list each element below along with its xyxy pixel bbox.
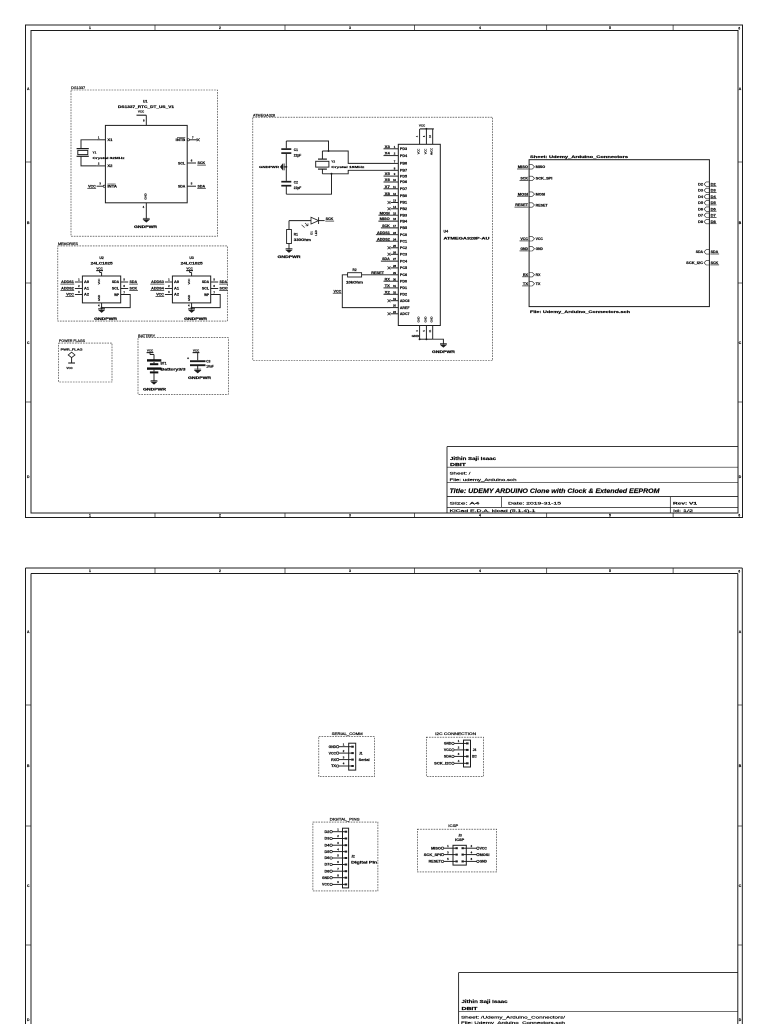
U1 pin 1 X1 xyxy=(97,139,106,141)
svg-text:31: 31 xyxy=(393,284,397,288)
svg-text:GND: GND xyxy=(423,316,427,322)
section box ICSP xyxy=(417,829,496,872)
svg-text:U1: U1 xyxy=(143,99,148,103)
J2 pin 2 D3 xyxy=(330,837,332,839)
svg-text:D5: D5 xyxy=(698,201,703,205)
J3 pin 5 RESET xyxy=(441,860,443,862)
U1 pin 5 SDA xyxy=(187,185,196,187)
sheet symbol Udemy_Arduino_Connectors xyxy=(529,160,709,307)
svg-text:A2: A2 xyxy=(174,293,179,297)
svg-text:PC2: PC2 xyxy=(400,246,407,250)
svg-text:WP: WP xyxy=(204,293,210,297)
svg-text:A0: A0 xyxy=(84,280,89,284)
svg-text:X1: X1 xyxy=(107,138,112,142)
svg-text:GND: GND xyxy=(480,860,488,864)
svg-text:PB1: PB1 xyxy=(400,201,407,205)
svg-text:26: 26 xyxy=(393,250,397,254)
sheet pin GND (left) xyxy=(529,247,534,251)
page border inner xyxy=(31,31,738,514)
title block frame xyxy=(447,446,738,448)
svg-text:PB2: PB2 xyxy=(400,207,407,211)
section box MEMORIES xyxy=(58,246,228,321)
wire crystal top to C1 and PB6 xyxy=(286,141,328,151)
svg-text:Jithin Saji Isaac: Jithin Saji Isaac xyxy=(450,456,497,461)
section box ATMEGA328 xyxy=(253,117,493,360)
wire crystal bottom to C2 and PB7 xyxy=(286,174,331,194)
svg-text:D3: D3 xyxy=(325,837,330,841)
U2 address pins A0 A1 A2 xyxy=(75,281,83,283)
svg-text:Digital Pin: Digital Pin xyxy=(351,861,377,865)
svg-text:J1: J1 xyxy=(359,751,363,755)
svg-text:U3: U3 xyxy=(189,256,193,260)
svg-text:ATMEGA328: ATMEGA328 xyxy=(253,113,275,117)
svg-text:22: 22 xyxy=(393,310,397,314)
J1 pin 3 RX xyxy=(336,758,338,760)
svg-text:VCC: VCC xyxy=(186,266,193,270)
svg-text:A0: A0 xyxy=(174,280,179,284)
svg-text:D2: D2 xyxy=(711,182,716,186)
svg-text:J3: J3 xyxy=(458,833,462,837)
svg-text:D4: D4 xyxy=(325,843,330,847)
svg-text:3: 3 xyxy=(349,569,351,573)
svg-text:SDA: SDA xyxy=(711,250,719,254)
J2 pin 7 D8 xyxy=(330,870,332,872)
svg-text:SCK: SCK xyxy=(326,217,334,221)
J2 pin 3 D4 xyxy=(330,844,332,846)
section box DS1337 xyxy=(71,90,218,236)
svg-text:PC1: PC1 xyxy=(400,239,407,243)
wire C1 C2 vertical xyxy=(285,141,287,148)
capacitor C2 22pF xyxy=(281,181,291,183)
svg-text:SDA: SDA xyxy=(220,280,228,284)
svg-text:SDA: SDA xyxy=(198,184,206,188)
svg-text:GND: GND xyxy=(322,876,330,880)
ground GNDPWR below R1 xyxy=(288,244,290,250)
svg-text:D7: D7 xyxy=(325,863,330,867)
sheet pin SDA (right) xyxy=(704,250,709,254)
J3 pin 3 SCK_SPI xyxy=(441,853,443,855)
svg-text:PB3: PB3 xyxy=(400,213,407,217)
svg-text:PB7: PB7 xyxy=(400,169,407,173)
power VCC under flag xyxy=(68,362,75,364)
U1 pin 2 X2 xyxy=(97,165,106,167)
svg-text:Sheet: /: Sheet: / xyxy=(450,471,472,476)
svg-text:15: 15 xyxy=(393,211,397,215)
svg-text:SERIAL_COMM: SERIAL_COMM xyxy=(332,732,363,736)
svg-text:PC6: PC6 xyxy=(400,273,407,277)
svg-text:RX: RX xyxy=(523,273,529,277)
svg-text:VCC: VCC xyxy=(193,348,200,352)
svg-text:RESET: RESET xyxy=(371,271,384,275)
svg-text:PC4: PC4 xyxy=(400,259,407,263)
sheet pin D5 (right) xyxy=(704,201,709,205)
frame row ticks and letters xyxy=(26,161,32,163)
svg-text:VCC: VCC xyxy=(417,149,421,155)
J4 pin 3 SDA xyxy=(452,755,454,757)
svg-text:VCC: VCC xyxy=(66,366,73,370)
svg-text:PD0: PD0 xyxy=(400,279,407,283)
svg-text:MOSI: MOSI xyxy=(536,192,546,196)
svg-text:Sheet: Udemy_Arduino_Connector: Sheet: Udemy_Arduino_Connectors xyxy=(530,155,628,159)
svg-text:Rev: V1: Rev: V1 xyxy=(673,501,698,506)
svg-text:SDA: SDA xyxy=(130,280,138,284)
svg-text:GNDPWR: GNDPWR xyxy=(259,165,280,169)
svg-text:R1: R1 xyxy=(294,232,298,236)
sheet pin TX (left) xyxy=(529,282,534,286)
J1 pin 2 VCC xyxy=(336,752,338,754)
svg-text:MOSI: MOSI xyxy=(518,192,528,196)
svg-text:23: 23 xyxy=(393,231,397,235)
svg-text:SDA: SDA xyxy=(202,280,210,284)
J1 pin 1 GND xyxy=(336,746,338,748)
wire to GNDPWR below U4 xyxy=(433,339,444,344)
svg-text:PD2: PD2 xyxy=(400,293,407,297)
svg-text:PC0: PC0 xyxy=(400,233,407,237)
svg-text:GND: GND xyxy=(97,295,101,301)
svg-text:X8: X8 xyxy=(385,192,390,196)
svg-text:A1: A1 xyxy=(174,287,179,291)
svg-text:13: 13 xyxy=(393,199,397,203)
svg-text:VCC: VCC xyxy=(480,846,488,850)
wire R2 to RESET pin xyxy=(362,274,391,276)
svg-text:PWR_FLAG: PWR_FLAG xyxy=(61,347,84,351)
ground GNDPWR below U3 xyxy=(191,308,193,310)
page border inner xyxy=(31,573,738,575)
capacitor C1 22pF xyxy=(281,148,291,150)
svg-text:VCC: VCC xyxy=(187,279,191,285)
svg-text:DBIT: DBIT xyxy=(450,462,466,467)
svg-text:A2: A2 xyxy=(84,293,89,297)
svg-text:WP: WP xyxy=(114,293,120,297)
svg-text:VCC: VCC xyxy=(88,184,96,188)
ic U3 24LC1025 EEPROM xyxy=(172,276,210,303)
svg-text:MISO: MISO xyxy=(518,165,529,169)
svg-text:SCK: SCK xyxy=(130,287,138,291)
svg-text:RESET: RESET xyxy=(536,203,548,207)
J3 pin 1 MISO xyxy=(441,847,443,849)
svg-text:D6: D6 xyxy=(698,207,703,211)
wire SCK LED branch xyxy=(289,220,311,222)
svg-text:3: 3 xyxy=(349,26,351,30)
svg-text:GNDPWR: GNDPWR xyxy=(278,255,302,259)
svg-text:GND: GND xyxy=(143,193,147,199)
svg-text:GND: GND xyxy=(444,742,452,746)
svg-text:2: 2 xyxy=(219,569,221,573)
svg-text:VCC: VCC xyxy=(156,293,164,297)
svg-text:File: Udemy_Arduino_Connectors: File: Udemy_Arduino_Connectors.sch xyxy=(530,310,630,314)
sheet pin D3 (right) xyxy=(704,188,709,192)
svg-text:PB6: PB6 xyxy=(400,162,407,166)
svg-text:INTB: INTB xyxy=(176,138,186,142)
svg-text:ATMEGA328P-AU: ATMEGA328P-AU xyxy=(444,237,491,241)
svg-text:BATTERY: BATTERY xyxy=(138,334,156,338)
svg-text:D2: D2 xyxy=(698,182,703,186)
J2 pin 9 VCC xyxy=(330,883,332,885)
svg-text:PB0: PB0 xyxy=(400,194,407,198)
svg-text:ADC6: ADC6 xyxy=(400,299,410,303)
sheet pin RX (left) xyxy=(529,273,534,277)
svg-text:Title: UDEMY ARDUINO Clone wit: Title: UDEMY ARDUINO Clone with Clock & … xyxy=(450,488,661,495)
svg-text:Crystal 32MHz: Crystal 32MHz xyxy=(93,156,126,160)
svg-text:Crystal 16MHz: Crystal 16MHz xyxy=(331,165,365,169)
J2 pin 1 D2 xyxy=(330,831,332,833)
svg-text:I2C CONNECTION: I2C CONNECTION xyxy=(435,732,477,736)
svg-text:J2: J2 xyxy=(351,855,355,859)
section box DIGITAL PINS xyxy=(313,822,378,891)
svg-text:SDA: SDA xyxy=(696,250,704,254)
svg-text:PC5: PC5 xyxy=(400,266,407,270)
svg-text:D6: D6 xyxy=(711,207,716,211)
page border outer xyxy=(26,567,743,569)
svg-text:X4: X4 xyxy=(385,152,390,156)
connector J1 Serial xyxy=(349,743,356,770)
svg-text:GND: GND xyxy=(417,316,421,322)
U1 pin 6 SCL -> SCK xyxy=(187,162,196,164)
svg-text:1: 1 xyxy=(89,513,91,517)
svg-text:J4: J4 xyxy=(473,748,477,752)
svg-text:D8: D8 xyxy=(325,869,330,873)
svg-text:ADDS2: ADDS2 xyxy=(61,287,74,291)
svg-text:10uF: 10uF xyxy=(206,364,213,368)
J2 pin 8 GND xyxy=(330,877,332,879)
svg-text:DS1337: DS1337 xyxy=(71,86,85,90)
svg-text:19: 19 xyxy=(393,297,397,301)
J2 pin 5 D6 xyxy=(330,857,332,859)
frame column ticks and numbers xyxy=(154,25,156,31)
svg-text:MOSI: MOSI xyxy=(380,211,390,215)
svg-text:GND: GND xyxy=(187,295,191,301)
svg-text:ICSP: ICSP xyxy=(448,824,459,828)
J3 pin 6 GND xyxy=(477,860,479,862)
svg-text:12: 12 xyxy=(393,192,397,196)
svg-text:SCK: SCK xyxy=(711,261,719,265)
svg-text:16: 16 xyxy=(393,217,397,221)
svg-text:GND: GND xyxy=(329,745,337,749)
svg-text:17: 17 xyxy=(393,224,397,228)
page border outer xyxy=(26,25,743,518)
ground GNDPWR below U4 xyxy=(440,345,447,348)
U3 pins SDA SCL WP xyxy=(211,281,219,283)
svg-text:PB4: PB4 xyxy=(400,219,407,223)
svg-text:24: 24 xyxy=(393,237,397,241)
svg-text:27: 27 xyxy=(393,257,397,261)
section box SERIAL_COMM xyxy=(319,737,375,777)
svg-text:Jithin Saji Isaac: Jithin Saji Isaac xyxy=(462,999,509,1004)
sheet pin D4 (right) xyxy=(704,194,709,198)
svg-text:ADDS2: ADDS2 xyxy=(377,237,390,241)
led D1 on SCK xyxy=(311,217,319,224)
svg-text:PC3: PC3 xyxy=(400,253,407,257)
svg-text:MEMORIES: MEMORIES xyxy=(58,242,79,246)
svg-text:PB5: PB5 xyxy=(400,226,407,230)
svg-text:D2: D2 xyxy=(325,830,330,834)
svg-text:D8: D8 xyxy=(698,220,703,224)
svg-text:1: 1 xyxy=(89,569,91,573)
svg-text:GNDPWR: GNDPWR xyxy=(143,387,167,391)
J2 pin 4 D5 xyxy=(330,850,332,852)
svg-text:D3: D3 xyxy=(698,189,703,193)
sheet pin D8 (right) xyxy=(704,219,709,223)
svg-text:D7: D7 xyxy=(698,214,703,218)
svg-text:MISO: MISO xyxy=(536,165,546,169)
svg-text:VCC: VCC xyxy=(147,348,154,352)
svg-text:ADDS1: ADDS1 xyxy=(61,280,74,284)
svg-text:File: Udemy_Arduino_Connectors: File: Udemy_Arduino_Connectors.sch xyxy=(461,1020,565,1024)
svg-text:3: 3 xyxy=(349,513,351,517)
svg-text:X5: X5 xyxy=(385,172,390,176)
ic U1 DS1337 RTC xyxy=(105,125,187,202)
ground GNDPWR at C1/C2 junction xyxy=(284,166,287,168)
J3 pin 2 VCC xyxy=(477,847,479,849)
J4 pin 2 VCC xyxy=(452,749,454,751)
svg-text:ADDS1: ADDS1 xyxy=(377,231,390,235)
J2 pin 6 D7 xyxy=(330,863,332,865)
svg-text:SCL: SCL xyxy=(178,161,185,165)
svg-text:VCC: VCC xyxy=(322,883,330,887)
J4 pin 4 SCK_I2C xyxy=(452,762,454,764)
J4 pin 1 GND xyxy=(452,742,454,744)
ground GNDPWR below BT1 xyxy=(151,382,158,385)
svg-text:D5: D5 xyxy=(325,850,330,854)
U1 pin 7 ~INTB no-connect xyxy=(187,139,189,141)
svg-text:X6: X6 xyxy=(385,178,390,182)
svg-text:D7: D7 xyxy=(711,214,716,218)
svg-text:D4: D4 xyxy=(711,195,716,199)
svg-text:VCC: VCC xyxy=(334,289,342,293)
svg-text:4: 4 xyxy=(479,26,481,30)
section box BATTERY xyxy=(138,338,228,395)
svg-text:25: 25 xyxy=(393,244,397,248)
sheet pin D7 (right) xyxy=(704,213,709,217)
svg-text:DBIT: DBIT xyxy=(462,1006,478,1011)
svg-text:SDA: SDA xyxy=(444,755,452,759)
svg-text:GNDPWR: GNDPWR xyxy=(184,317,208,321)
sheet pin SCK_I2C (right) xyxy=(704,261,709,265)
svg-text:SCK: SCK xyxy=(220,287,228,291)
svg-text:ADDS4: ADDS4 xyxy=(151,287,164,291)
svg-text:VCC: VCC xyxy=(329,751,337,755)
svg-text:5: 5 xyxy=(609,513,611,517)
svg-text:22pF: 22pF xyxy=(294,153,301,157)
connector J2 Digital Pin xyxy=(343,828,349,888)
svg-text:GNDPWR: GNDPWR xyxy=(188,376,212,380)
svg-text:X2: X2 xyxy=(107,164,112,168)
ground GNDPWR below U2 xyxy=(101,308,103,310)
svg-text:SCK_SPI: SCK_SPI xyxy=(424,853,441,857)
svg-text:5: 5 xyxy=(609,26,611,30)
svg-text:DIGITAL_PINS: DIGITAL_PINS xyxy=(330,818,361,822)
svg-text:C3: C3 xyxy=(206,359,210,363)
svg-text:PD3: PD3 xyxy=(400,147,407,151)
frame row ticks and letters xyxy=(26,704,32,706)
svg-text:VCC: VCC xyxy=(66,293,74,297)
U2 pins SDA SCL WP xyxy=(121,281,129,283)
svg-text:Y2: Y2 xyxy=(331,160,335,164)
svg-text:D4: D4 xyxy=(698,195,703,199)
ic U2 24LC1025 EEPROM xyxy=(82,276,120,303)
U3 address pins A0 A1 A2 xyxy=(165,281,173,283)
svg-text:24LC1025: 24LC1025 xyxy=(91,262,113,266)
svg-text:VCC: VCC xyxy=(138,109,145,113)
svg-text:PD7: PD7 xyxy=(400,187,407,191)
svg-text:RESET: RESET xyxy=(429,860,441,864)
svg-text:SCK_SPI: SCK_SPI xyxy=(536,177,553,181)
svg-text:SDA: SDA xyxy=(382,257,390,261)
svg-text:VCC: VCC xyxy=(444,748,452,752)
sheet pin SCK_SPI (left) xyxy=(529,176,534,180)
svg-text:D5: D5 xyxy=(711,201,716,205)
J1 pin 4 TX xyxy=(336,765,338,767)
svg-text:GND: GND xyxy=(430,316,434,322)
svg-text:D6: D6 xyxy=(325,856,330,860)
svg-text:INTA: INTA xyxy=(107,185,117,189)
svg-text:C2: C2 xyxy=(294,180,298,184)
connector J4 I2C xyxy=(464,740,471,767)
svg-text:MOSI: MOSI xyxy=(480,853,490,857)
svg-text:GND: GND xyxy=(412,334,420,338)
svg-text:D3: D3 xyxy=(711,189,716,193)
svg-text:BT1: BT1 xyxy=(161,361,167,365)
svg-text:VCC: VCC xyxy=(97,279,101,285)
svg-text:AVCC: AVCC xyxy=(430,148,434,155)
svg-text:Date: 2019-31-15: Date: 2019-31-15 xyxy=(508,501,562,506)
svg-text:Serial: Serial xyxy=(359,758,370,762)
svg-text:R2: R2 xyxy=(353,268,357,272)
svg-text:1: 1 xyxy=(89,26,91,30)
frame column ticks and numbers xyxy=(154,568,156,574)
U1 pin 3 ~INTA with VCC label xyxy=(97,185,104,187)
sheet pin VCC (left) xyxy=(529,237,534,241)
svg-text:SCL: SCL xyxy=(112,287,119,291)
svg-text:10kOhm: 10kOhm xyxy=(346,281,363,285)
wire VCC net to R2 and AREF xyxy=(342,275,390,308)
svg-text:20: 20 xyxy=(393,304,397,308)
sheet pin MISO (left) xyxy=(529,165,534,169)
svg-text:VCC: VCC xyxy=(419,124,426,128)
svg-text:VCC: VCC xyxy=(423,149,427,155)
svg-text:30: 30 xyxy=(393,277,397,281)
svg-text:5: 5 xyxy=(609,569,611,573)
resistor R1 330Ohm xyxy=(288,221,290,230)
svg-text:File: udemy_Arduino.sch: File: udemy_Arduino.sch xyxy=(450,477,517,482)
svg-text:SDA: SDA xyxy=(112,280,120,284)
svg-text:Size: A4: Size: A4 xyxy=(450,501,482,506)
svg-text:A1: A1 xyxy=(84,287,89,291)
J3 pin 4 MOSI xyxy=(477,853,479,855)
svg-text:SCK: SCK xyxy=(520,177,528,181)
svg-text:6: 6 xyxy=(738,26,740,30)
svg-text:Id: 1/2: Id: 1/2 xyxy=(673,508,694,513)
svg-text:SCL: SCL xyxy=(202,287,209,291)
svg-text:Sheet: /Udemy_Arduino_Connecto: Sheet: /Udemy_Arduino_Connectors/ xyxy=(461,1015,566,1020)
sheet pin MOSI (left) xyxy=(529,192,534,196)
svg-text:AREF: AREF xyxy=(400,306,410,310)
ground GNDPWR below U1 xyxy=(143,220,150,223)
crystal Y2 16MHz xyxy=(318,158,327,160)
svg-text:2: 2 xyxy=(219,26,221,30)
svg-text:ADDS3: ADDS3 xyxy=(151,280,164,284)
svg-text:SCK: SCK xyxy=(382,224,390,228)
svg-text:X2: X2 xyxy=(385,290,390,294)
svg-text:6: 6 xyxy=(738,514,740,518)
svg-text:PD6: PD6 xyxy=(400,180,407,184)
ground GNDPWR below C3 xyxy=(194,370,201,373)
svg-text:VCC: VCC xyxy=(96,266,103,270)
svg-text:DS1337_RTC_DT_US_V1: DS1337_RTC_DT_US_V1 xyxy=(118,105,174,109)
svg-text:ICSP: ICSP xyxy=(455,838,465,842)
svg-text:GND: GND xyxy=(536,247,544,251)
svg-text:LED: LED xyxy=(314,230,318,235)
